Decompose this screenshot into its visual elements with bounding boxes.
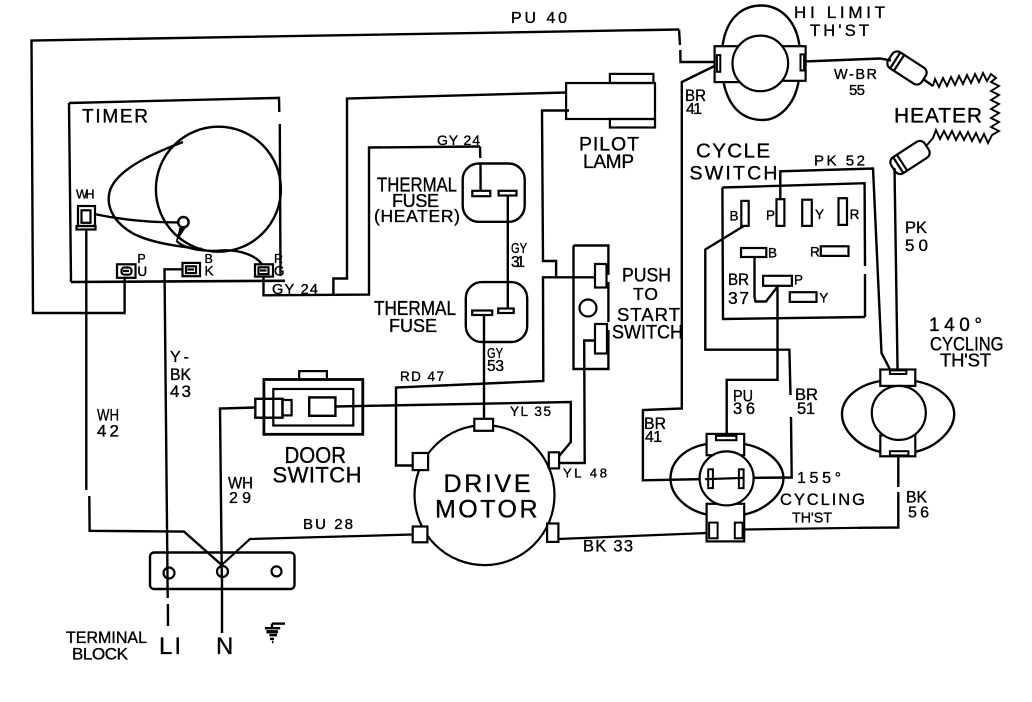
timer terminal WH [77, 206, 96, 230]
svg-text:R: R [850, 207, 860, 222]
pilot lamp lower lead [542, 111, 569, 278]
svg-text:51: 51 [797, 400, 815, 418]
hi limit left blade [717, 55, 720, 72]
motor right upper terminal [549, 452, 559, 468]
svg-text:K: K [205, 263, 214, 278]
svg-text:MOTOR: MOTOR [435, 496, 538, 524]
hi limit left bracket [715, 46, 740, 82]
svg-text:BK 33: BK 33 [583, 538, 633, 556]
svg-text:WH: WH [76, 188, 95, 202]
cycle switch jumper B-P (BR 37) [755, 257, 779, 302]
door switch top tab [299, 371, 327, 379]
svg-text:31: 31 [511, 254, 525, 271]
timer box [69, 98, 279, 112]
wire BR 51 (cycle B to 155 thermostat) [705, 226, 790, 395]
svg-text:R: R [810, 245, 820, 260]
140 thermostat top blade [890, 370, 906, 374]
push to start switch box [574, 246, 609, 276]
svg-text:LAMP: LAMP [583, 152, 634, 173]
svg-text:TO: TO [633, 284, 658, 304]
thermal fuse (heater) left blade [472, 191, 490, 196]
svg-text:53: 53 [487, 358, 504, 375]
terminal block hole center [217, 566, 228, 577]
svg-text:(HEATER): (HEATER) [374, 206, 460, 226]
hi limit circle [733, 36, 789, 92]
svg-text:BR: BR [728, 271, 749, 289]
svg-text:Y: Y [819, 291, 828, 306]
wire BK 56 [897, 456, 899, 487]
140 thermostat left lobe [842, 381, 880, 452]
155 thermostat circle [700, 451, 754, 505]
svg-text:PK: PK [905, 218, 928, 237]
wire BU 28 (terminal block to motor) [222, 535, 413, 566]
hi limit thermostat top lobe [723, 6, 800, 47]
140 thermostat bottom blade [890, 451, 909, 455]
svg-text:YL 35: YL 35 [510, 404, 551, 419]
svg-text:YL 48: YL 48 [563, 466, 607, 481]
wire PK 52 [780, 169, 890, 370]
140 thermostat circle [872, 386, 926, 440]
drive motor circle [415, 425, 555, 565]
wire WH 42 [85, 230, 87, 491]
svg-text:TH'ST: TH'ST [810, 22, 869, 40]
cycle switch box [722, 183, 865, 266]
wire PU 40 outer loop [32, 30, 680, 314]
svg-text:RD 47: RD 47 [400, 369, 444, 384]
wire pilot to push switch [556, 276, 595, 278]
svg-text:P: P [794, 273, 803, 288]
svg-text:HEATER: HEATER [894, 105, 982, 128]
ground symbol [265, 624, 285, 642]
cycle switch blade B top [741, 201, 748, 226]
svg-text:GY 24: GY 24 [272, 282, 318, 298]
svg-text:N: N [216, 633, 233, 660]
155 thermostat top bracket [707, 434, 745, 455]
svg-text:41: 41 [686, 101, 702, 118]
heater bottom plug [888, 139, 932, 177]
wire YL 48 (push switch to motor) [558, 341, 595, 464]
wire GY 31 [507, 196, 509, 309]
wire YL 35 (door switch to motor) [335, 402, 570, 461]
wire Y-BK 43 [165, 269, 183, 598]
svg-text:B: B [730, 209, 739, 224]
svg-text:BU 28: BU 28 [303, 516, 353, 533]
motor left lower terminal [413, 527, 428, 543]
door switch blade [309, 397, 335, 415]
motor top terminal [474, 419, 493, 431]
cycle switch blade P top [777, 199, 785, 226]
door switch left plug [255, 399, 282, 418]
155 thermostat bottom blades [709, 523, 718, 539]
push switch button circle [580, 300, 597, 317]
door switch outer [264, 380, 363, 435]
wire GY24 branch to pilot lamp [333, 93, 566, 296]
svg-text:TH'ST: TH'ST [940, 350, 991, 371]
motor right lower terminal [547, 524, 558, 542]
svg-text:W-BR: W-BR [834, 67, 877, 83]
hi limit right bracket [783, 46, 806, 81]
140 thermostat bottom bracket [880, 435, 915, 456]
svg-text:BLOCK: BLOCK [72, 645, 129, 664]
155 thermostat right lobe [744, 444, 783, 515]
terminal block hole right [272, 566, 282, 576]
timer cam pear outline [109, 142, 202, 249]
heater top plug [885, 49, 929, 87]
cycle switch blade P mid [763, 276, 792, 286]
thermal fuse (heater) right blade [499, 191, 517, 196]
svg-text:U: U [137, 264, 147, 279]
svg-text:TH'ST: TH'ST [792, 510, 832, 527]
timer terminal BK [183, 263, 201, 276]
wire GY24 drop to thermal fuse heater [479, 147, 482, 159]
timer terminal PU [117, 264, 136, 278]
thermal fuse body [466, 282, 527, 342]
140 thermostat top bracket [880, 370, 915, 386]
155 thermostat bottom bracket [707, 504, 745, 542]
terminal block [150, 553, 295, 590]
140 thermostat right lobe [915, 381, 954, 452]
155 thermostat wire through [705, 478, 744, 479]
wire PK 50 [895, 168, 898, 370]
wire WH 29 (door switch to terminal block) [220, 408, 255, 578]
svg-text:CYCLE: CYCLE [696, 140, 770, 163]
cycle switch blade Y top [802, 200, 812, 226]
svg-text:PK 52: PK 52 [814, 153, 865, 170]
push switch bottom blade [595, 324, 607, 354]
wire GY 24 (timer RG to pilot lamp / thermal fuse) [264, 147, 481, 296]
cycle switch blade R mid [821, 246, 849, 256]
pilot lamp connector [566, 74, 655, 128]
timer cam link wire WH to pointer [94, 214, 178, 222]
svg-text:FUSE: FUSE [389, 316, 437, 336]
svg-text:GY 24: GY 24 [437, 132, 480, 148]
svg-text:37: 37 [728, 288, 749, 308]
svg-text:Y: Y [815, 207, 824, 222]
timer terminal RG [255, 264, 273, 276]
wire L1 lead [221, 577, 223, 633]
svg-text:SWITCH: SWITCH [612, 323, 683, 344]
push switch top blade [595, 264, 607, 288]
thermal fuse (heater) body [463, 164, 525, 222]
svg-text:SWITCH: SWITCH [273, 463, 362, 488]
hi limit thermostat bottom lobe [724, 82, 799, 120]
timer cam circle [156, 127, 281, 252]
svg-text:P: P [766, 208, 775, 223]
155 thermostat inner blades [708, 469, 713, 488]
timer cam wire pointer to RG [177, 241, 263, 265]
cycle switch blade Y mid [790, 292, 817, 302]
svg-text:G: G [274, 263, 285, 278]
svg-text:DRIVE: DRIVE [444, 470, 531, 498]
heater element zigzag [927, 73, 999, 145]
svg-text:B: B [768, 246, 777, 261]
155 thermostat top blade [716, 436, 736, 440]
155 thermostat left lobe [671, 444, 707, 515]
wire BR 41 (hi-limit to 155 thermostat) [643, 66, 716, 481]
cycle switch blade R top [839, 198, 848, 225]
hi limit right blade [801, 54, 805, 70]
cycle switch blade B mid [741, 248, 766, 257]
timer cam pointer teardrop [178, 217, 188, 227]
door switch inner [273, 389, 353, 426]
terminal block hole left [164, 568, 175, 579]
motor left upper terminal [413, 453, 428, 470]
wire RD 47 (pilot lead to motor) [396, 277, 556, 465]
svg-text:55: 55 [849, 82, 865, 99]
thermal fuse right blade [498, 309, 514, 314]
svg-text:41: 41 [645, 429, 662, 446]
svg-text:LI: LI [159, 633, 181, 660]
wire GY 53 [483, 315, 485, 419]
wire BK 33 (motor to 140 thermostat) [558, 533, 707, 539]
wire W-BR 55 [804, 59, 891, 62]
svg-text:TIMER: TIMER [82, 107, 148, 128]
svg-text:PU 40: PU 40 [511, 10, 567, 27]
wire PU 36 (cycle P to 155 thermostat) [727, 286, 778, 434]
thermal fuse left blade [472, 311, 492, 316]
wire PU40 drop to hi-limit [679, 30, 680, 46]
